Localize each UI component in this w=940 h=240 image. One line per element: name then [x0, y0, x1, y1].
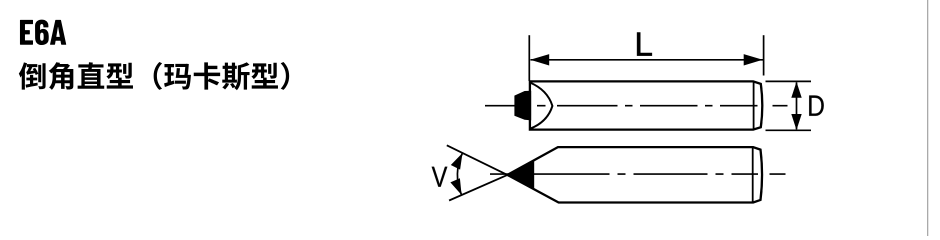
page divider gray rule [927, 0, 928, 236]
title E6A [20, 20, 66, 45]
dimension L: left extension line [528, 35, 530, 81]
dimension V: upper arc arrowhead [451, 153, 463, 170]
dimension V: lower angle line [449, 175, 507, 201]
dimension D: dimension line [796, 82, 798, 129]
dimension L: left arrowhead [530, 54, 549, 65]
top view: center line [485, 105, 788, 107]
dimension V: upper angle line [447, 145, 508, 175]
dimension V: angle arc [457, 153, 462, 195]
dimension D: label D [809, 96, 824, 116]
dimension L: label L [637, 33, 652, 56]
dimension D: top extension line [766, 80, 812, 82]
top view: cone profile curve [530, 83, 553, 129]
dimension D: bottom extension line [766, 129, 812, 131]
subtitle 倒角直型（玛卡斯型） [19, 62, 289, 90]
dimension V: label V [432, 167, 448, 187]
top view: shank body outline with chamfered end [530, 81, 762, 129]
bottom view: center line [490, 173, 786, 175]
dimension D: up arrowhead [791, 82, 801, 98]
dimension L: right extension line [763, 35, 765, 75]
bottom view: body outline with conical point and chamfered end [507, 147, 762, 202]
top view: end chamfer edge line [753, 82, 755, 129]
dimension L: dimension line [531, 59, 764, 61]
top view: diamond tip (black) [514, 91, 531, 121]
bottom view: diamond tip (black triangle) [507, 160, 534, 190]
dimension L: right arrowhead [744, 54, 763, 65]
dimension D: down arrowhead [791, 114, 801, 130]
dimension V: lower arc arrowhead [450, 178, 461, 195]
bottom view: end chamfer edge line [752, 148, 754, 202]
